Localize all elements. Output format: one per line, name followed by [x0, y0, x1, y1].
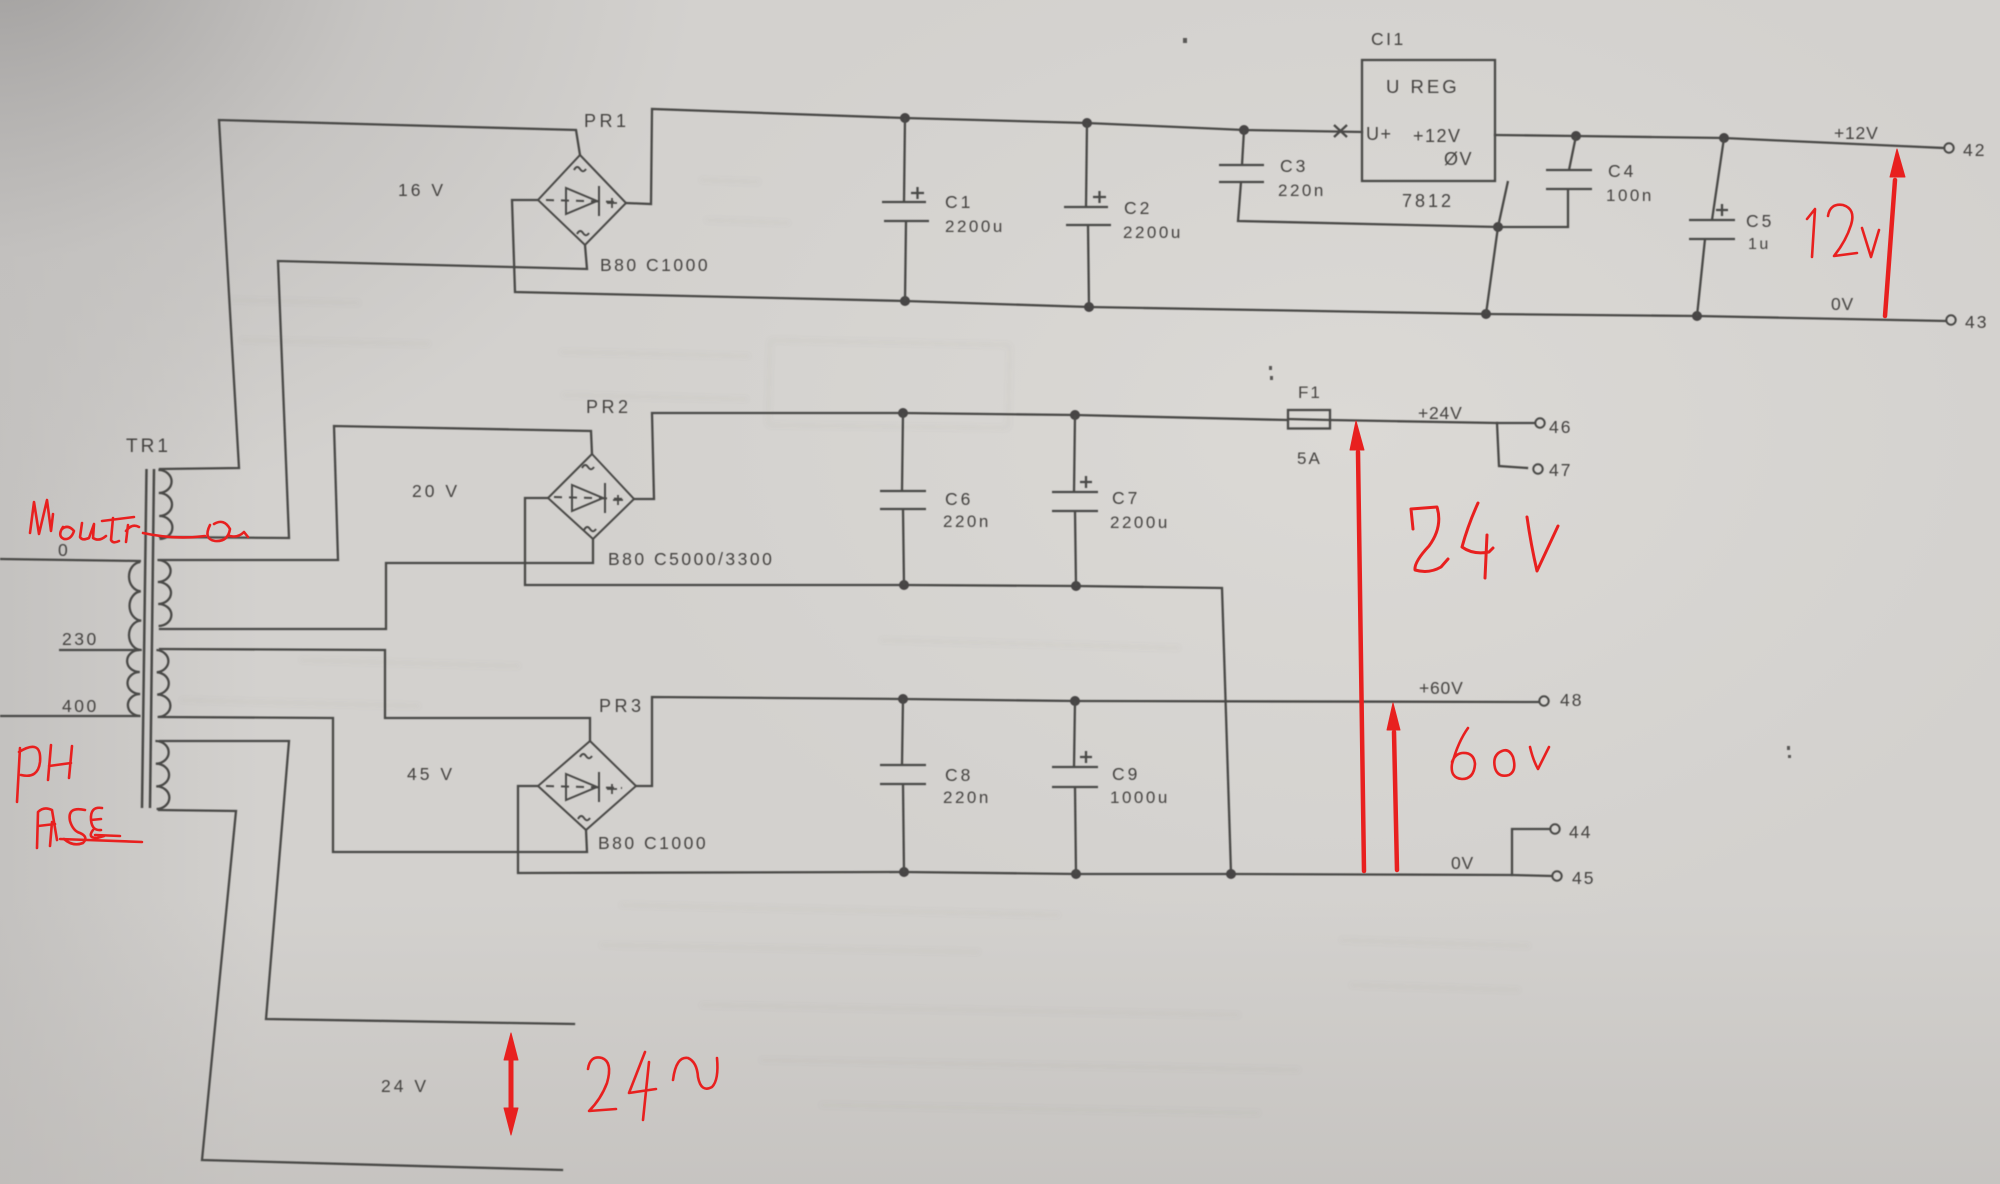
svg-text:220n: 220n	[943, 788, 991, 807]
svg-text:16 V: 16 V	[398, 180, 446, 200]
terminal 42	[1944, 143, 1953, 152]
capacitor C9	[1052, 701, 1098, 874]
svg-text:PR3: PR3	[599, 696, 645, 716]
wire branch to terminal 44	[1512, 829, 1550, 875]
red annotation "12v"	[1807, 209, 1815, 257]
svg-text:43: 43	[1965, 312, 1988, 332]
wire 24V winding bottom lead stub	[159, 810, 562, 1170]
svg-text:+24V: +24V	[1418, 403, 1463, 423]
terminal 43	[1946, 315, 1955, 324]
svg-text:C7: C7	[1112, 488, 1140, 508]
wire 20V winding top lead to PR2 ~ top	[160, 426, 592, 560]
svg-text:C9: C9	[1112, 764, 1140, 784]
svg-text:+12V: +12V	[1834, 123, 1879, 143]
svg-text:C2: C2	[1124, 198, 1152, 218]
capacitor C3	[1219, 130, 1498, 227]
wire branch to terminal 47	[1497, 423, 1527, 468]
bridge rectifier PR2	[548, 454, 634, 539]
primary tap 400	[0, 715, 140, 717]
svg-text:C6: C6	[945, 489, 973, 509]
end ink	[17, 149, 1905, 1135]
TR1 secondary winding 45V	[156, 650, 170, 717]
svg-text:C3: C3	[1280, 156, 1308, 176]
capacitor C6	[880, 413, 926, 585]
wire 16V winding top lead to PR1 ~ top	[160, 120, 580, 469]
primary tap 0	[0, 559, 141, 561]
svg-text:400: 400	[62, 696, 99, 716]
wire PR3 + to +60V rail and terminal 48	[636, 697, 1539, 786]
svg-text:C5: C5	[1746, 211, 1774, 231]
tiny print specks	[1183, 38, 1791, 758]
svg-text:220n: 220n	[943, 512, 991, 531]
svg-text:46: 46	[1549, 417, 1572, 437]
svg-text:0: 0	[58, 540, 70, 560]
wire PR2 - to block2 0V rail, down to block3 0V	[525, 498, 1231, 873]
wire 45V winding bottom lead to PR3 ~ bottom	[160, 717, 587, 852]
svg-text:TR1: TR1	[126, 436, 171, 457]
TR1 secondary winding 16V	[158, 470, 172, 539]
wire PR3 - to 0V rail and terminal 45	[518, 786, 1551, 876]
wire PR2 ~ bottom to 20V winding bottom lead	[160, 539, 593, 629]
capacitor C5	[1689, 138, 1735, 316]
svg-text:B80 C1000: B80 C1000	[598, 833, 708, 853]
svg-text:220n: 220n	[1278, 181, 1326, 200]
svg-text:C4: C4	[1608, 161, 1636, 181]
svg-text:2200u: 2200u	[1110, 513, 1170, 532]
terminal 47	[1533, 464, 1542, 473]
capacitor C1	[882, 118, 929, 301]
wire PR1 + to +12V rail	[626, 109, 1362, 204]
svg-text:48: 48	[1560, 690, 1583, 710]
wire PR1 ~ bottom to 16V winding bottom lead	[160, 245, 587, 538]
terminal 45	[1552, 871, 1561, 880]
svg-text:1u: 1u	[1748, 236, 1771, 253]
terminal 46	[1535, 418, 1544, 427]
svg-text:PR1: PR1	[584, 111, 630, 131]
svg-text:B80 C5000/3300: B80 C5000/3300	[608, 549, 774, 569]
svg-text:F1: F1	[1298, 383, 1322, 402]
red annotation "PH"	[17, 747, 40, 802]
TR1 primary winding upper (0-230)	[128, 562, 142, 650]
wire 24V winding top lead stub	[160, 741, 574, 1024]
svg-text:24 V: 24 V	[381, 1076, 429, 1096]
terminal 48	[1539, 696, 1548, 705]
red annotation "ASE"	[37, 808, 57, 848]
capacitor C7	[1052, 415, 1098, 586]
svg-text:CI1: CI1	[1371, 29, 1406, 49]
svg-text:42: 42	[1963, 140, 1986, 160]
svg-text:47: 47	[1549, 460, 1572, 480]
red arrow 60V	[1394, 732, 1397, 870]
wire PR2 + to +24V rail (to fuse)	[634, 413, 1287, 499]
svg-text:B80 C1000: B80 C1000	[600, 255, 710, 275]
red annotation "Neutre"	[30, 500, 53, 534]
TR1 secondary winding 24V	[155, 741, 169, 809]
faint bleed-through ghosts	[180, 180, 1530, 1113]
svg-text:2200u: 2200u	[1123, 223, 1183, 242]
primary tap 230	[59, 649, 140, 651]
bridge rectifier PR1	[538, 155, 626, 245]
svg-text:100n: 100n	[1606, 186, 1654, 205]
svg-text:45 V: 45 V	[407, 764, 455, 784]
svg-text:0V: 0V	[1831, 294, 1854, 314]
capacitor C8	[880, 699, 926, 872]
fuse F1	[1287, 410, 1330, 429]
svg-text:U REG: U REG	[1386, 76, 1460, 97]
svg-text:+60V: +60V	[1419, 678, 1464, 698]
bridge rectifier PR3	[538, 741, 636, 830]
svg-text:C1: C1	[945, 192, 973, 212]
wire +12V rail from regulator to terminal 42	[1495, 135, 1944, 148]
svg-text:U+: U+	[1366, 124, 1393, 144]
TR1 secondary winding 20V	[157, 560, 171, 626]
red arrow 24V	[1358, 452, 1364, 871]
TR1 primary winding lower (230-400)	[127, 650, 141, 716]
red arrow 12V (right)	[1885, 180, 1895, 316]
transformer TR1	[142, 469, 154, 808]
svg-text:2200u: 2200u	[945, 217, 1005, 236]
svg-text:C8: C8	[945, 765, 973, 785]
red double arrow 24V (bottom)	[509, 1060, 514, 1108]
red annotation "24 v" (large)	[1411, 503, 1558, 578]
svg-text:7812: 7812	[1402, 191, 1454, 211]
svg-text:ØV: ØV	[1444, 149, 1473, 169]
svg-text:PR2: PR2	[586, 397, 632, 417]
terminal 44	[1550, 824, 1559, 833]
svg-text:1000u: 1000u	[1110, 788, 1170, 807]
capacitor C4	[1498, 136, 1592, 227]
svg-text:+12V: +12V	[1413, 126, 1462, 146]
svg-text:0V: 0V	[1451, 853, 1474, 873]
svg-text:20 V: 20 V	[412, 481, 460, 501]
red annotation "24 (sine)" (bottom)	[588, 1057, 616, 1111]
svg-text:230: 230	[62, 629, 99, 649]
capacitor C2	[1064, 123, 1111, 307]
wire PR1 - to 0V rail and terminal 43	[512, 200, 1945, 321]
regulator CI1 (7812)	[1334, 60, 1508, 314]
svg-text:45: 45	[1572, 868, 1595, 888]
wire +24V rail fuse to terminal 46	[1330, 420, 1534, 423]
wire 45V winding top lead to PR3 ~ top	[160, 649, 590, 741]
svg-text:44: 44	[1569, 822, 1592, 842]
red annotation "60v"	[1452, 728, 1475, 779]
svg-text:5A: 5A	[1297, 449, 1322, 468]
